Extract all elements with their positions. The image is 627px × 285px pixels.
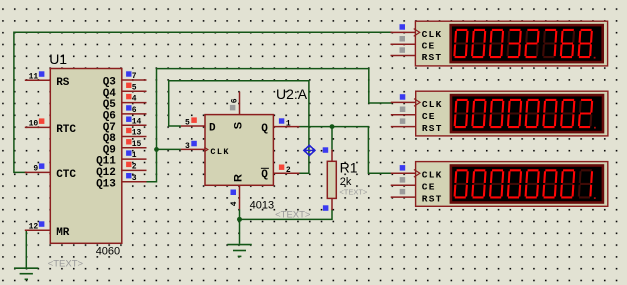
svg-text:Q9: Q9: [103, 144, 116, 156]
svg-text:RST: RST: [422, 194, 443, 205]
svg-text:U1: U1: [49, 51, 67, 67]
U1 pin 6 Q6: [103, 105, 147, 122]
svg-text:RS: RS: [56, 77, 70, 89]
svg-text:R1: R1: [340, 159, 358, 175]
svg-text:Q12: Q12: [96, 167, 116, 179]
svg-text:4: 4: [230, 201, 239, 206]
display bottom counter digits reading 00000001: [455, 170, 596, 199]
display top counter digits reading 00032768: [454, 30, 595, 59]
wire: branch junction to U2:A CLK: [157, 148, 181, 150]
svg-text:5: 5: [185, 119, 190, 128]
display bottom counter pin CE stub: [391, 177, 436, 193]
U2:A pin 2 Qbar output: [261, 165, 300, 181]
digital display bottom counter body: [416, 162, 608, 207]
U1 pin 4 Q5: [103, 94, 147, 111]
svg-text:6: 6: [231, 98, 240, 103]
display middle counter digits reading 00000002: [455, 100, 596, 129]
svg-text:CLK: CLK: [210, 147, 230, 157]
svg-text:<TEXT>: <TEXT>: [339, 187, 368, 196]
U1 pin 2 Q12: [96, 162, 146, 179]
U2:A pin 6 S set input: [230, 92, 245, 130]
svg-text:<TEXT>: <TEXT>: [275, 210, 311, 221]
U2:A pin 5 D input: [181, 117, 216, 134]
svg-text:RTC: RTC: [56, 124, 76, 136]
svg-text:RST: RST: [422, 52, 443, 63]
wire: U1 Q13 up and over to middle display CLK: [146, 69, 391, 182]
U1 pin 10 RTC: [25, 118, 77, 136]
svg-text:Q: Q: [261, 123, 268, 135]
svg-text:Q6: Q6: [103, 111, 116, 123]
U1 pin 3 Q13: [96, 173, 146, 190]
junction node at R1 top: [330, 124, 335, 129]
svg-text:12: 12: [29, 222, 39, 231]
svg-text:S: S: [232, 122, 244, 129]
U1 pin 15 Q9: [103, 139, 147, 156]
svg-text:7: 7: [132, 72, 137, 81]
display middle counter pin RST stub: [391, 118, 443, 134]
IC U1 4060 body: [50, 69, 122, 244]
U1 pin 9 CTC: [25, 163, 77, 181]
wire: U2:A Q to R1 top and bottom display CLK: [300, 127, 392, 174]
svg-text:RST: RST: [422, 123, 443, 134]
svg-text:CLK: CLK: [422, 29, 443, 40]
svg-text:1: 1: [286, 120, 291, 129]
display middle counter pin CLK stub: [391, 94, 443, 110]
svg-text:6: 6: [132, 106, 137, 115]
svg-text:11: 11: [29, 72, 39, 81]
svg-text:CLK: CLK: [422, 170, 443, 181]
svg-text:CLK: CLK: [422, 99, 443, 110]
wire: U1 CTC to top display CLK: [14, 32, 392, 172]
svg-text:Q13: Q13: [96, 178, 116, 190]
wire: U2:A R pin / R1 bottom to ground: [239, 209, 241, 244]
svg-text:4013: 4013: [250, 199, 274, 211]
svg-text:Q8: Q8: [103, 133, 117, 145]
svg-text:Q5: Q5: [103, 99, 117, 111]
svg-text:15: 15: [132, 140, 142, 149]
flip-flop U2:A 4013 body: [205, 115, 273, 186]
junction node at ground net: [237, 217, 242, 222]
U2:A pin 3 CLK input: [181, 141, 230, 157]
voltage probe marker on feedback wire: [304, 145, 315, 156]
svg-text:4060: 4060: [96, 246, 120, 258]
display top counter pin CE stub: [391, 36, 436, 52]
display middle counter pin CE stub: [391, 107, 436, 123]
display top counter pin CLK stub: [391, 24, 443, 40]
ground under U1 MR: [14, 268, 38, 279]
svg-text:MR: MR: [56, 227, 70, 239]
wire: U2:A Qbar feedback loop to D: [169, 81, 309, 174]
svg-text:U2:A: U2:A: [276, 86, 308, 102]
junction node at U1 Q13 net: [154, 147, 159, 152]
svg-text:Q11: Q11: [96, 156, 116, 168]
U1 pin 13 Q8: [103, 128, 147, 145]
ground under U2:A: [227, 245, 251, 257]
U1 pin 12 MR: [25, 221, 70, 239]
svg-text:Q: Q: [261, 169, 268, 181]
digital display top counter body: [415, 21, 607, 66]
svg-text:CE: CE: [422, 111, 436, 122]
svg-text:Q3: Q3: [103, 77, 117, 89]
svg-text:D: D: [209, 123, 216, 135]
svg-text:Q7: Q7: [103, 122, 116, 134]
svg-text:CE: CE: [422, 182, 436, 193]
wire: U1 MR to ground: [25, 230, 27, 268]
U1 pin 14 Q7: [103, 117, 147, 134]
svg-text:CE: CE: [422, 41, 436, 52]
U1 pin 5 Q4: [103, 83, 147, 100]
svg-text:4: 4: [132, 95, 137, 104]
svg-text:CTC: CTC: [56, 169, 76, 181]
svg-text:13: 13: [132, 129, 142, 138]
display bottom counter pin RST stub: [391, 189, 443, 205]
U1 pin 11 RS: [25, 71, 70, 89]
svg-text:R: R: [232, 174, 244, 182]
svg-text:Q4: Q4: [103, 88, 117, 100]
svg-text:2: 2: [286, 166, 291, 175]
resistor R1 leads: [331, 127, 333, 211]
U1 pin 1 Q11: [96, 150, 146, 167]
svg-text:3: 3: [132, 174, 137, 183]
U1 pin 7 Q3: [103, 71, 147, 88]
svg-text:10: 10: [29, 119, 39, 128]
R1 terminal state squares: [323, 147, 329, 211]
svg-text:14: 14: [132, 117, 142, 126]
display bottom counter pin CLK stub: [391, 165, 443, 181]
svg-text:2k: 2k: [340, 176, 352, 188]
svg-text:1: 1: [132, 151, 137, 160]
svg-text:2: 2: [132, 163, 137, 172]
resistor R1 body: [327, 161, 336, 198]
display top counter pin RST stub: [391, 47, 443, 63]
svg-text:3: 3: [185, 142, 190, 151]
svg-text:9: 9: [33, 164, 38, 173]
digital display middle counter body: [416, 91, 608, 136]
wire: horizontal run R1 bottom to ground net: [240, 210, 333, 220]
U2:A pin 4 R reset input: [230, 174, 245, 209]
svg-text:5: 5: [132, 83, 137, 92]
U2:A pin 1 Q output: [261, 118, 299, 135]
svg-text:<TEXT>: <TEXT>: [48, 258, 84, 269]
